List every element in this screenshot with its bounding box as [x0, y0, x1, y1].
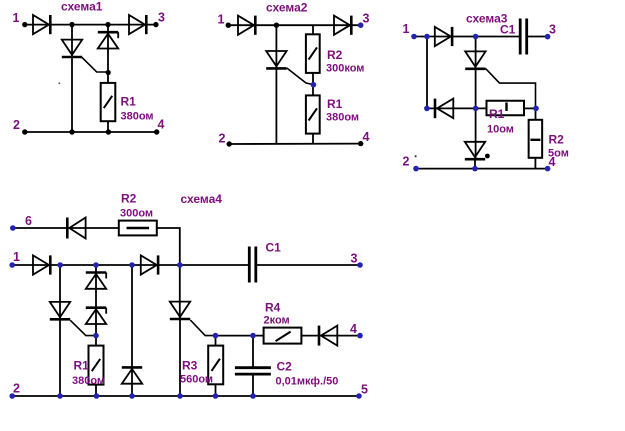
zener VD4 scheme4 [86, 273, 106, 289]
wire gate rail scheme4 [216, 335, 264, 337]
svg-text:2: 2 [13, 118, 20, 132]
wire R1 to bottom rail [107, 121, 109, 132]
node 2 [22, 129, 27, 134]
wire mid rail left scheme3 [427, 107, 487, 109]
stray mark scheme3 [415, 155, 417, 157]
wire node6 rail scheme4 [13, 227, 119, 229]
svg-text:схема4: схема4 [181, 192, 223, 206]
svg-text:2: 2 [13, 382, 20, 396]
svg-text:300ком: 300ком [326, 63, 364, 75]
svg-text:1: 1 [13, 250, 20, 264]
node 2 scheme3 [413, 166, 419, 172]
zener VD3 [98, 32, 118, 48]
diode VD2 scheme3 [435, 99, 453, 119]
junction top left scheme3 [424, 34, 430, 40]
junction bottom R1 scheme4 [94, 393, 100, 399]
wire left thyristor branch lower scheme4 [59, 319, 61, 397]
node 3 scheme4 [357, 262, 363, 268]
wire R2 branch top [312, 25, 314, 35]
diode VD1 scheme3 [435, 27, 452, 46]
thyristor VS1 scheme3 [465, 51, 485, 68]
thyristor VS2 scheme3 [465, 142, 485, 159]
junction bottom C2 scheme4 [250, 393, 256, 399]
capacitor C1 scheme4 [249, 247, 256, 283]
wire bottom rail scheme2 [229, 143, 361, 145]
node 3 [153, 22, 158, 27]
thyristor VS1 scheme4 [50, 302, 70, 319]
diode VD2 scheme4 [33, 255, 50, 274]
node 4 scheme4 [357, 333, 363, 339]
svg-text:R1: R1 [489, 107, 505, 121]
svg-text:R1: R1 [327, 97, 343, 111]
svg-text:2: 2 [403, 155, 410, 169]
wire gate VS2 scheme4 [190, 320, 215, 336]
resistor R2 scheme3 [529, 120, 543, 158]
svg-text:C2: C2 [277, 360, 293, 374]
svg-text:4: 4 [350, 322, 357, 336]
thyristor VS1 scheme2 [266, 51, 286, 68]
svg-text:C1: C1 [266, 241, 282, 255]
wire thyristor branch lower scheme2 [275, 68, 277, 145]
svg-text:2ком: 2ком [264, 315, 290, 327]
wire gate VS1 scheme3 [486, 69, 536, 109]
wire between R2 and R1 [312, 73, 314, 96]
wire R2 to bottom rail scheme3 [534, 158, 536, 169]
svg-text:схема2: схема2 [266, 1, 308, 15]
junction R1 R2 gate node [311, 82, 317, 88]
svg-text:4: 4 [363, 130, 370, 144]
svg-text:300ом: 300ом [120, 208, 153, 220]
svg-text:R3: R3 [182, 359, 198, 373]
junction top scheme2 [274, 23, 279, 28]
svg-text:380ом: 380ом [326, 112, 359, 124]
wire top rail scheme2 [228, 24, 360, 26]
junction gate R3 scheme4 [213, 333, 219, 339]
svg-text:R2: R2 [121, 192, 137, 206]
wire zener branch upper [107, 25, 109, 50]
svg-text:3: 3 [363, 12, 370, 26]
wire R1 to bottom rail scheme4 [95, 385, 97, 396]
junction bottom thyristor branch [69, 129, 74, 134]
wire bottom rail scheme1 [25, 131, 157, 133]
wire R1 to bottom rail scheme2 [312, 134, 314, 144]
resistor R1 scheme2 [306, 95, 320, 133]
diode VD1 [33, 15, 50, 34]
junction bottom thyristor1 scheme4 [57, 393, 63, 399]
junction top zener branch [105, 22, 110, 27]
svg-text:схема1: схема1 [61, 0, 103, 14]
wire right thyristor branch lower scheme4 [179, 318, 181, 396]
wire R1 to junction scheme3 [524, 107, 536, 109]
svg-text:R2: R2 [549, 133, 565, 147]
svg-text:3: 3 [351, 252, 358, 266]
capacitor C1 scheme3 [520, 19, 527, 55]
junction bottom thyristor2 scheme4 [177, 393, 183, 399]
wire thyristor VS1 to mid rail [475, 68, 477, 108]
svg-text:10ом: 10ом [487, 124, 514, 136]
stray mark [59, 83, 61, 85]
junction row1 R2 corner scheme4 [177, 262, 183, 268]
node 4 [154, 129, 159, 134]
zener VD5 scheme4 [86, 308, 106, 324]
svg-text:3: 3 [549, 23, 556, 37]
wire left vertical scheme3 [426, 37, 428, 109]
thyristor VS1 [62, 40, 82, 57]
wire gate VS1 scheme2 [287, 68, 314, 85]
wire thyristor branch lower [71, 56, 73, 132]
svg-text:6: 6 [25, 214, 32, 228]
wire thyristor branch upper scheme2 [275, 25, 277, 68]
wire top rail scheme1 [25, 24, 156, 26]
junction mid center scheme3 [473, 106, 479, 112]
svg-text:5: 5 [361, 383, 368, 397]
junction mid left scheme3 [424, 106, 430, 112]
thyristor VS2 scheme4 [170, 302, 190, 319]
node 1 scheme4 [9, 262, 15, 268]
junction top thyristor branch [69, 22, 74, 27]
node 2 bottom scheme4 [9, 393, 15, 399]
junction gate node A [106, 70, 111, 75]
svg-text:R4: R4 [265, 301, 281, 315]
junction bottom R3 scheme4 [213, 393, 219, 399]
capacitor C2 scheme4 [235, 368, 271, 374]
wire zener branch middle [107, 48, 109, 83]
wire zener branch top scheme4 [95, 265, 97, 346]
svg-text:C1: C1 [500, 23, 516, 37]
wire right thyristor branch upper scheme4 [179, 265, 181, 320]
wire left thyristor branch upper scheme4 [59, 265, 61, 320]
diode VD6 scheme4 [122, 367, 142, 383]
wire top rail left scheme3 [414, 36, 520, 38]
wire C2 to bottom rail scheme4 [252, 374, 254, 396]
wire R4 to diode scheme4 [301, 335, 360, 337]
resistor R1 scheme4 [89, 346, 104, 385]
wire gate VS1 [82, 57, 108, 72]
junction row1 zener scheme4 [93, 262, 99, 268]
svg-text:1: 1 [218, 13, 225, 27]
resistor R4 scheme4 [264, 328, 302, 344]
wire thyristor branch upper [71, 25, 73, 58]
wire bottom rail scheme3 [416, 168, 548, 170]
svg-text:3: 3 [158, 11, 165, 25]
diode VD7 scheme4 [319, 326, 337, 346]
wire C2 branch top scheme4 [252, 336, 254, 368]
node 4 scheme3 [545, 166, 551, 172]
diode VD1 scheme2 [238, 16, 255, 35]
wire row1 left scheme4 [12, 264, 249, 266]
node 1 [22, 22, 27, 27]
gate dot VS2 [485, 154, 490, 159]
wire top rail right scheme3 [528, 36, 548, 38]
resistor R2 scheme4 [119, 221, 157, 236]
svg-text:R2: R2 [327, 48, 343, 62]
resistor R2 scheme2 [306, 34, 320, 73]
wire R3 to bottom rail scheme4 [215, 384, 217, 396]
wire row1 segment4 scheme4 [257, 264, 361, 266]
svg-text:R1: R1 [121, 95, 137, 109]
resistor R1 scheme1 [101, 83, 116, 121]
node 1 scheme2 [226, 23, 231, 28]
diode VD2 [129, 15, 146, 34]
resistor R1 scheme3 [487, 101, 525, 116]
node 5 scheme4 [356, 393, 362, 399]
junction gate zener R1 scheme4 [93, 333, 99, 339]
svg-text:380ом: 380ом [72, 375, 105, 387]
diode VD1 scheme4 [67, 218, 85, 239]
wire bottom rail scheme4 [12, 395, 359, 397]
resistor R3 scheme4 [208, 346, 223, 385]
wire thyristor2 to bottom rail [474, 159, 476, 169]
svg-text:0,01мкф./50: 0,01мкф./50 [276, 376, 339, 388]
svg-text:380ом: 380ом [121, 111, 154, 123]
junction row1 thyristor scheme4 [57, 262, 63, 268]
svg-text:4: 4 [158, 118, 165, 132]
svg-text:2: 2 [219, 132, 226, 146]
diode VD3 scheme4 [141, 255, 158, 274]
junction top thyristor scheme3 [473, 34, 479, 40]
svg-text:560ом: 560ом [180, 374, 213, 386]
node 2 scheme2 [227, 141, 232, 146]
wire R2 to corner scheme4 [157, 228, 180, 265]
junction gate C2 scheme4 [250, 333, 256, 339]
wire gate VS1 scheme4 [70, 320, 96, 335]
junction bottom R1 branch [106, 129, 111, 134]
wire junction to R2 scheme3 [535, 108, 537, 120]
wire thyristor2 branch upper scheme3 [475, 108, 477, 159]
wire bottom diode branch scheme4 [131, 265, 133, 396]
svg-text:1: 1 [403, 22, 410, 36]
node 3 scheme3 [545, 34, 551, 40]
node 4 scheme2 [358, 141, 363, 146]
svg-text:1: 1 [13, 11, 20, 25]
diode VD2 scheme2 [334, 16, 351, 35]
node 1 scheme3 [411, 34, 417, 40]
node 3 scheme2 [358, 22, 364, 28]
node 6 [10, 225, 16, 231]
junction bottom scheme3 [472, 166, 478, 172]
wire R3 branch top scheme4 [215, 336, 217, 346]
junction mid right scheme3 [533, 106, 539, 112]
junction bottom VD6 scheme4 [129, 393, 135, 399]
svg-text:R1: R1 [74, 359, 90, 373]
wire thyristor branch upper scheme3 [475, 37, 477, 70]
junction row1 diode branch scheme4 [129, 262, 135, 268]
